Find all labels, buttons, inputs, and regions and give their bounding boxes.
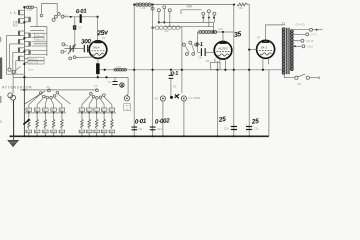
label C10: [108, 80, 112, 84]
wire grid feed to C5: [64, 48, 84, 50]
wire grid line to V1 top: [64, 16, 97, 18]
label S2b: [63, 14, 68, 18]
label box under J3: [124, 104, 131, 111]
wire HT bus corner down: [127, 77, 128, 95]
junction dots on HT bus: [97, 76, 99, 78]
svg-text:L11 1·9: L11 1·9: [29, 59, 37, 61]
svg-text:S1a: S1a: [28, 68, 33, 72]
svg-text:L15: L15: [218, 27, 223, 31]
svg-text:0·002: 0·002: [155, 117, 171, 125]
svg-text:R22: R22: [94, 132, 98, 134]
wire J1 to earth bus: [162, 101, 164, 136]
svg-text:0·1: 0·1: [171, 71, 179, 77]
capacitor C3 blob on dropper: [73, 25, 76, 30]
wire selector line: [20, 89, 97, 91]
trimmer C4 plates: [70, 45, 71, 52]
output tap 4: [293, 45, 301, 47]
wire far-left vertical feeder 4: [15, 61, 17, 74]
wire R4 corner down: [248, 5, 250, 50]
resistors R10-R14 (ladder): [28, 113, 30, 119]
svg-text:35: 35: [234, 31, 242, 39]
output tap 1: [293, 29, 309, 31]
wire V2 cathode rail: [216, 61, 218, 136]
junction dots on top rail: [133, 3, 135, 5]
svg-text:C10: C10: [224, 126, 230, 130]
wire ladder bus 2: [78, 112, 117, 114]
wire vertical R4 rail: [248, 50, 250, 137]
wire V3 grid feed: [249, 49, 256, 51]
label S4b: [187, 4, 193, 8]
svg-text:R21: R21: [87, 132, 91, 134]
wire J2 to earth bus: [183, 101, 185, 136]
capacitor C8 plates: [201, 48, 202, 56]
label L16: [116, 65, 121, 69]
capacitor C5 plates: [84, 45, 85, 52]
coil L8 (right column): [29, 42, 31, 44]
label L1: [10, 11, 16, 15]
resistor R3 (loop): [211, 62, 220, 69]
transformer T1 secondary winding: [291, 30, 293, 71]
coil L16 on return line: [114, 69, 117, 72]
svg-text:0·01: 0·01: [135, 118, 148, 126]
capacitor C14 plates: [246, 126, 252, 127]
svg-text:R23: R23: [102, 132, 106, 134]
label C5: [90, 39, 94, 43]
junction square on grid line: [70, 16, 72, 18]
svg-text:0·1: 0·1: [195, 42, 203, 48]
wire C7 lead down: [170, 70, 172, 76]
wire S6b fan: [82, 95, 91, 105]
svg-text:R10: R10: [27, 132, 31, 134]
switch contacts row to grid line: [52, 18, 55, 21]
capacitor C2 (black bar): [80, 14, 82, 23]
switch S1a contacts: [8, 68, 11, 71]
svg-text:R1: R1: [155, 96, 159, 100]
svg-text:C9: C9: [138, 127, 142, 131]
svg-text:T1: T1: [281, 22, 286, 26]
switch S6a pivot: [48, 89, 51, 92]
contact circle under box left leg: [40, 14, 43, 17]
transformer T1 core: [286, 28, 290, 74]
svg-text:R20: R20: [80, 132, 84, 134]
coil L1 (left column): [18, 10, 20, 12]
switch contacts under V1: [69, 57, 72, 60]
wire V2 cathode leads: [214, 59, 216, 63]
attenuator jack: [8, 93, 13, 98]
label V3: [257, 36, 261, 40]
wire S4b stems: [202, 15, 204, 22]
label R2: [173, 84, 177, 88]
resistors R15-R19 (labelled boxes): [81, 105, 83, 108]
wire selector long arm: [25, 91, 45, 104]
label V1: [102, 36, 106, 40]
trimmer box across coils: [14, 21, 17, 26]
svg-text:L10: L10: [27, 8, 32, 12]
coil L13 on top rail: [136, 3, 139, 6]
ground symbol: [8, 140, 19, 146]
resistors R20-R24 (ladder): [81, 113, 83, 119]
junction dots S4a: [163, 21, 165, 23]
junction dot at V1 grid node: [96, 16, 98, 18]
wire far-left vertical feeder 2: [9, 44, 11, 68]
wire earth bus: [10, 135, 269, 137]
switch S4b contacts: [202, 12, 205, 15]
label T1: [281, 22, 286, 26]
wire V3 anode to T1: [266, 25, 285, 40]
wire left heavy drop: [23, 77, 25, 136]
wire V1 bottom lead: [97, 58, 99, 63]
wire S4a stems: [158, 12, 160, 23]
wire attenuator feeder: [12, 74, 14, 93]
wire long return line: [100, 69, 285, 71]
wire trimmer column vertical: [46, 27, 48, 56]
padder box C1a: [34, 33, 44, 36]
svg-text:AC⁄SG: AC⁄SG: [218, 46, 228, 50]
junction dot L14 takeoff: [151, 27, 153, 29]
svg-text:ATTENUATOR: ATTENUATOR: [2, 85, 32, 89]
wire C6 to HT bus: [97, 74, 99, 77]
svg-text:6·01: 6·01: [76, 9, 87, 16]
valve V2 AC/SG: [214, 42, 232, 60]
capacitor C6 electrolytic (black bar): [96, 63, 100, 74]
resistors R5-R9 (labelled boxes): [28, 105, 30, 108]
label L13: [141, 6, 146, 10]
svg-text:ML4: ML4: [93, 46, 99, 50]
svg-text:R2: R2: [173, 84, 177, 88]
transformer T1 primary winding: [282, 28, 285, 74]
capacitor C7 plates: [169, 75, 174, 76]
switch S5: [284, 74, 294, 78]
wire stub upper to trimmer column: [30, 26, 47, 28]
wire vertical from top rail left end: [133, 5, 135, 137]
label R3: [206, 59, 210, 63]
switch S6b contacts: [90, 93, 93, 96]
wire L14 lead: [153, 27, 155, 29]
wire S4b feed: [181, 10, 202, 14]
output tap 3: [293, 40, 300, 42]
scan edge artifact: [0, 37, 1, 42]
label C13: [224, 126, 230, 130]
svg-text:L13: L13: [141, 6, 146, 10]
wire bottom collector of coil bank: [7, 73, 25, 75]
terminal B (bold circled): [120, 83, 124, 87]
wire contact slants: [185, 46, 189, 53]
junction blob C7 bottom: [170, 96, 173, 99]
svg-text:L16: L16: [116, 65, 121, 69]
wire far-left vertical feeder 3: [12, 52, 14, 74]
wire L14 drop: [180, 28, 182, 93]
wire L10 drop: [36, 7, 38, 26]
junction dots on coil-bank bus: [23, 6, 25, 8]
svg-text:L 1: L 1: [10, 11, 16, 15]
resistor R4: [237, 3, 247, 6]
svg-text:S4b: S4b: [187, 4, 193, 8]
switch S4a contacts: [157, 9, 160, 12]
svg-text:2 Ω 10: 2 Ω 10: [306, 40, 314, 43]
wire ladder bus 1: [24, 112, 66, 114]
wire C8 leads: [198, 51, 202, 53]
padder box C1b: [35, 37, 45, 40]
coil L3 (left column): [18, 31, 20, 33]
svg-text:S5: S5: [297, 82, 301, 86]
wire attenuator to earth: [13, 100, 15, 136]
label S5: [297, 82, 301, 86]
capacitor C13 plates: [231, 126, 237, 127]
wire earth bus right riser: [268, 70, 270, 137]
switch S6a contacts: [39, 92, 42, 95]
svg-text:O 7·5: O 7·5: [311, 34, 318, 37]
wire HT distribution bus: [13, 76, 128, 78]
svg-text:L12 1·10: L12 1·10: [29, 63, 39, 65]
label output range: [296, 23, 306, 27]
svg-text:R12: R12: [43, 132, 47, 134]
coil L14: [155, 26, 159, 30]
wire HT top rail: [134, 4, 234, 6]
wire stubs coil bank to column: [31, 32, 47, 34]
label R1: [155, 96, 159, 100]
svg-text:R11: R11: [35, 132, 38, 134]
jack J3: [124, 96, 129, 101]
label R4: [239, 6, 243, 10]
bold scribble x: [175, 94, 180, 98]
coil L6 (left column): [18, 56, 20, 58]
coil L4 (left column): [18, 39, 20, 41]
coil L6 (right column): [29, 17, 31, 19]
trimmer C4 arrow: [68, 44, 76, 54]
wire switch row lower: [164, 26, 213, 28]
wire switch row upper: [159, 21, 214, 23]
junction dot selector: [23, 89, 25, 91]
valve V3 rectifier: [257, 40, 275, 58]
svg-text:C× MOD: C× MOD: [188, 96, 200, 100]
capacitor C12 plates: [150, 127, 156, 128]
svg-text:C12: C12: [157, 127, 163, 131]
wire V1 top lead: [97, 17, 99, 41]
svg-text:S6: S6: [46, 85, 50, 89]
label ATTENUATOR: [2, 85, 32, 89]
coil L10 (top horizontal) with label: [26, 6, 28, 8]
wire ground stem: [13, 136, 15, 140]
junction dots on L15 line: [212, 31, 214, 33]
switch contacts left of C4: [62, 43, 65, 46]
coil L2 (left column): [18, 19, 20, 21]
label S1a: [28, 68, 33, 72]
wire S6a fan: [29, 94, 41, 104]
svg-text:C8: C8: [198, 55, 202, 59]
wiper arrow on ladder: [23, 119, 29, 124]
wire V3 cathode leads: [262, 58, 264, 70]
junction dots ladder bus 2: [81, 112, 83, 114]
svg-text:R13: R13: [51, 132, 55, 134]
capacitor C9 plates: [132, 127, 138, 128]
coil L15: [199, 30, 202, 33]
wire L15 left corner down: [197, 32, 199, 52]
jack J1: [160, 96, 165, 101]
svg-text:04 2: 04 2: [261, 45, 267, 49]
svg-text:4 Ω 0: 4 Ω 0: [307, 46, 313, 49]
valve V1 ML4: [89, 41, 107, 59]
output tap 2: [293, 33, 305, 35]
svg-text:V3: V3: [257, 36, 261, 40]
wire far-left vertical feeder 1: [6, 35, 8, 74]
svg-text:C5: C5: [90, 39, 94, 43]
svg-text:V1: V1: [102, 36, 106, 40]
junction dots on return line: [104, 69, 106, 71]
svg-text:S6: S6: [94, 84, 98, 88]
svg-text:C11: C11: [253, 126, 258, 130]
wire switch rows drop to L15: [213, 22, 215, 32]
range label box L12: [28, 61, 44, 64]
svg-text:R4: R4: [239, 6, 243, 10]
contact circle below rail: [151, 7, 154, 10]
wire stubs from label boxes: [24, 58, 28, 60]
label C8: [198, 55, 202, 59]
wire V1 cathode slant: [76, 56, 93, 59]
svg-text:C3: C3: [78, 25, 82, 29]
wire vertical HT right: [233, 5, 235, 137]
capacitor C10 plates: [112, 80, 117, 83]
wire mid bridge: [34, 43, 47, 45]
junction dots ladder bus 1: [28, 112, 30, 114]
wire contact stubs: [65, 44, 68, 46]
wire V2 anode lead: [222, 32, 224, 42]
wire stubs from far-left vertical feeders to coils: [7, 34, 20, 36]
wire dropper from grid line: [74, 17, 76, 49]
svg-text:C1: C1: [108, 80, 112, 84]
label L15: [218, 27, 223, 31]
coil L5 (left column): [18, 48, 20, 50]
wire C10 stub: [114, 77, 116, 81]
jack J2: [181, 96, 186, 101]
wire top-left box: [42, 4, 58, 14]
switch S6b pivot: [96, 89, 99, 92]
svg-text:L14: L14: [164, 29, 169, 33]
junction dots S4b: [202, 17, 204, 19]
coil L7 (right column): [29, 33, 31, 35]
svg-text:R3: R3: [206, 59, 210, 63]
label CAL MOD: [188, 96, 200, 100]
wire L15 line: [198, 31, 234, 33]
junction dot V3 grid: [248, 48, 250, 50]
label L14: [164, 29, 169, 33]
wire vertical second: [152, 5, 154, 137]
coil L9 (right column): [29, 50, 31, 52]
switch S2b contact at box right leg: [57, 13, 60, 16]
junction dots on earth bus: [13, 135, 15, 137]
range label box L11: [28, 57, 44, 60]
wire main vertical bus of coil bank: [23, 7, 25, 78]
switch contacts left of V2: [182, 43, 185, 46]
